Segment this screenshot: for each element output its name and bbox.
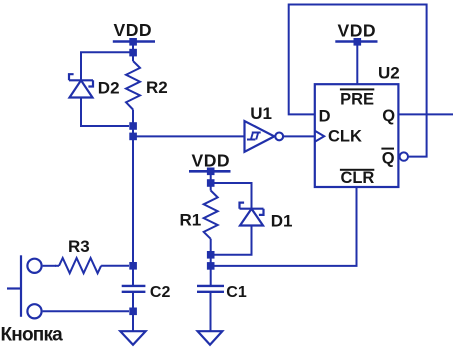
wire (U1 output to CLK): [283, 135, 315, 137]
node D (R1 top junction): [207, 179, 215, 187]
flip-flop U2 box: [315, 84, 399, 187]
svg-text:U1: U1: [250, 104, 272, 123]
wire (Q output): [398, 113, 453, 115]
node C (U1 input junction): [129, 133, 137, 141]
ground (under C2): [120, 331, 145, 345]
wire (D2 anode to junction B): [81, 98, 129, 127]
power VDD2: [189, 168, 231, 184]
node F (CLR junction): [207, 262, 215, 270]
svg-text:Q: Q: [382, 149, 395, 167]
diode D2: [69, 74, 93, 97]
resistor R3: [55, 258, 129, 273]
svg-text:Q: Q: [382, 107, 395, 125]
wire (button top to R3): [43, 265, 56, 267]
node E (D1 return junction): [207, 251, 215, 259]
power VDD3: [335, 38, 377, 84]
svg-text:VDD: VDD: [113, 20, 152, 40]
svg-text:C2: C2: [150, 284, 171, 301]
svg-text:D2: D2: [98, 79, 120, 98]
svg-text:D1: D1: [271, 211, 293, 230]
svg-text:C1: C1: [226, 284, 247, 301]
svg-text:D: D: [319, 108, 331, 126]
svg-text:R1: R1: [180, 210, 202, 229]
svg-text:R3: R3: [68, 237, 90, 256]
pin label Qbar (with overline): [381, 148, 394, 168]
node A (R2 top junction): [129, 49, 137, 57]
wire (button bottom to junction H): [43, 310, 129, 312]
button SB1 (Кнопка): [7, 255, 42, 318]
wire (Qbar feedback to D): [289, 5, 427, 157]
svg-text:CLK: CLK: [328, 128, 362, 146]
wire (junction C to U1 input): [133, 135, 245, 137]
Qbar output bubble: [400, 152, 408, 160]
wire (C1 to ground): [210, 292, 212, 331]
node H (C2 bottom junction): [129, 308, 137, 316]
capacitor C1: [197, 286, 224, 292]
wire (junction A to D2 cathode): [81, 52, 133, 80]
svg-text:PRE: PRE: [340, 90, 374, 108]
node B (D2 return junction): [129, 122, 137, 130]
svg-text:Кнопка: Кнопка: [1, 325, 64, 346]
svg-text:R2: R2: [146, 78, 168, 97]
wire (junction D to D1 cathode): [211, 183, 252, 209]
wire (D1 anode to junction E): [215, 226, 252, 255]
power VDD1: [113, 38, 155, 52]
diode D1: [240, 203, 264, 226]
resistor R1: [204, 186, 218, 251]
svg-text:U2: U2: [378, 64, 400, 83]
svg-text:VDD: VDD: [191, 151, 230, 171]
node G (R3/C2 junction): [129, 262, 137, 270]
ground (under C1): [198, 331, 223, 345]
wire (junction F to CLR pin): [211, 187, 357, 266]
pin label CLR (with overline): [340, 169, 375, 187]
wire (vertical net down to C2): [132, 126, 134, 286]
schmitt inverter U1: [245, 121, 284, 152]
resistor R2: [126, 55, 140, 123]
svg-text:VDD: VDD: [337, 20, 376, 40]
wire (junction F down to C1): [210, 251, 212, 286]
svg-text:CLR: CLR: [340, 169, 374, 187]
wire (C2 to ground): [132, 292, 134, 331]
CLK edge marker: [315, 131, 324, 142]
pin label PRE (with overline): [340, 88, 374, 108]
capacitor C2: [122, 286, 146, 292]
